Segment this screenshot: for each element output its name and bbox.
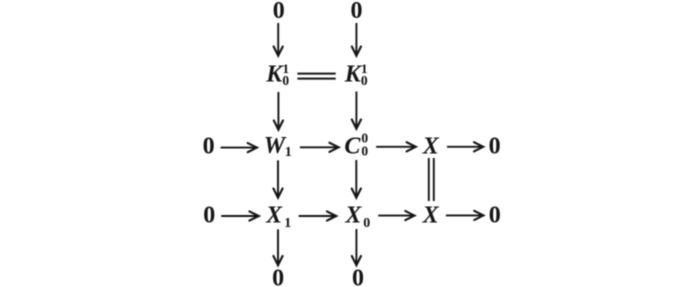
- arrow X to 0 (row 3): [447, 142, 483, 151]
- node W1: [264, 133, 292, 160]
- node K01 (right): [344, 61, 368, 88]
- svg-text:0: 0: [282, 73, 289, 88]
- node K01 (left): [265, 61, 289, 88]
- arrow X to 0 (row 4): [446, 211, 484, 220]
- arrow W1 to X1 (column B): [273, 160, 282, 197]
- svg-text:X: X: [265, 203, 283, 229]
- svg-text:0: 0: [352, 266, 364, 287]
- svg-text:1: 1: [284, 216, 291, 231]
- arrow C00 to X0 (column C): [352, 160, 361, 198]
- svg-text:C: C: [344, 134, 361, 160]
- svg-text:0: 0: [361, 143, 368, 158]
- equals X = X (vertical, column D): [429, 158, 434, 201]
- svg-text:0: 0: [203, 203, 215, 229]
- arrow 0 to X1: [221, 211, 259, 220]
- arrow X1 to X0: [299, 211, 337, 220]
- svg-text:0: 0: [363, 216, 370, 231]
- arrow C00 to X (row 3): [376, 142, 416, 151]
- svg-text:0: 0: [489, 203, 501, 229]
- arrow K01 to W1 (column B): [274, 92, 283, 130]
- svg-text:0: 0: [361, 73, 368, 88]
- svg-text:W: W: [264, 133, 287, 159]
- arrow X1 to 0 (column B bottom): [273, 229, 282, 265]
- svg-text:X: X: [344, 203, 362, 229]
- arrow 0 to W1: [221, 143, 257, 152]
- arrow W1 to C00: [300, 143, 339, 152]
- arrow K01 to C00 (column C): [352, 92, 361, 129]
- svg-text:0: 0: [203, 133, 215, 159]
- svg-text:0: 0: [351, 0, 363, 24]
- svg-text:0: 0: [272, 266, 284, 287]
- arrow 0 to K01 (column C): [352, 23, 361, 56]
- node X1: [265, 203, 291, 231]
- node X0: [344, 203, 370, 231]
- equals K01 = K01: [297, 74, 335, 79]
- svg-text:1: 1: [285, 145, 292, 160]
- svg-text:X: X: [422, 134, 440, 160]
- svg-text:X: X: [422, 203, 440, 229]
- svg-text:K: K: [265, 62, 284, 88]
- node C00: [344, 130, 368, 159]
- arrow X0 to X (row 4): [378, 211, 414, 220]
- arrow 0 to K01 (column B): [274, 23, 283, 56]
- arrow X0 to 0 (column C bottom): [352, 229, 361, 265]
- svg-text:0: 0: [273, 0, 285, 24]
- svg-text:0: 0: [489, 134, 501, 160]
